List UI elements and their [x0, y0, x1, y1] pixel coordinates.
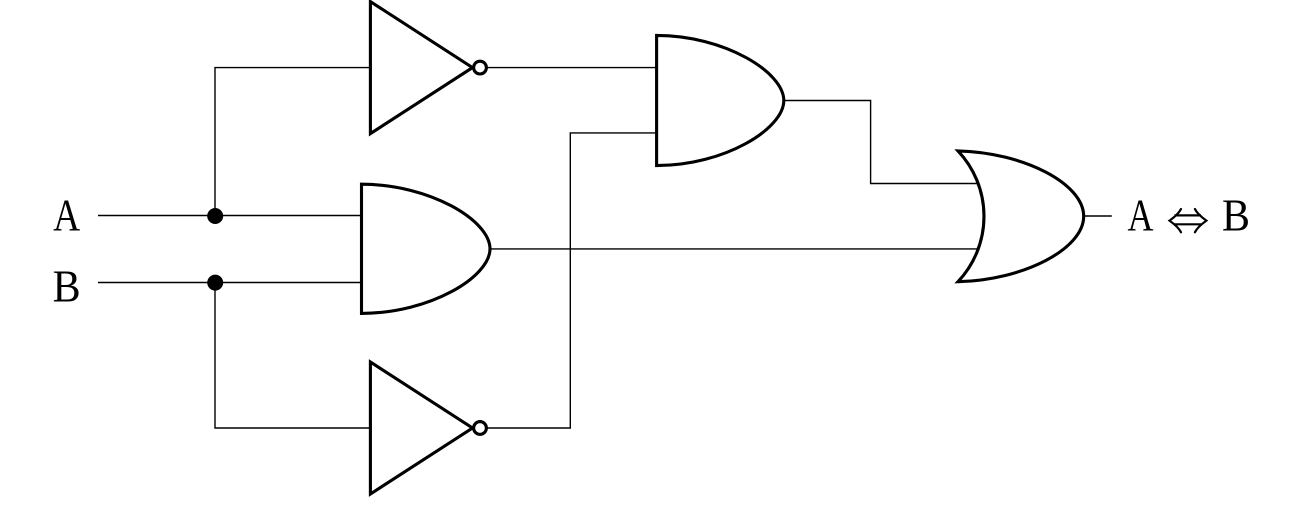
- node junction A: [207, 208, 223, 224]
- output equivalence arrow right head: [1195, 209, 1207, 232]
- wire NOT U1 output to AND U4 top input: [487, 67, 657, 69]
- wire A lead: [98, 215, 362, 217]
- svg-text:A: A: [53, 190, 80, 241]
- wire OR U5 output: [1085, 215, 1112, 217]
- inverter U2 triangle: [370, 362, 472, 494]
- and-gate U3: [362, 184, 491, 313]
- output equivalence arrow left head: [1170, 209, 1182, 232]
- wire A branch up to NOT U1: [215, 68, 372, 216]
- inverter U2 bubble: [474, 422, 487, 435]
- wire B branch down to NOT U2: [215, 283, 372, 429]
- wire AND U4 output to OR U5 top input: [784, 101, 978, 184]
- node junction B: [207, 275, 223, 291]
- wire AND U3 output to OR U5 bottom input: [490, 248, 978, 250]
- output equivalence arrow top bar: [1175, 214, 1202, 216]
- or-gate U5: [958, 151, 1084, 282]
- wire NOT U2 output up to AND U4 bottom input: [487, 133, 657, 428]
- svg-text:A: A: [1128, 190, 1154, 241]
- svg-text:B: B: [1222, 190, 1250, 241]
- output equivalence arrow bottom bar: [1175, 223, 1202, 225]
- svg-text:B: B: [53, 261, 81, 312]
- inverter U1 triangle: [370, 2, 472, 134]
- inverter U1 bubble: [474, 61, 487, 74]
- and-gate U4: [657, 35, 784, 165]
- wire B lead: [98, 282, 362, 284]
